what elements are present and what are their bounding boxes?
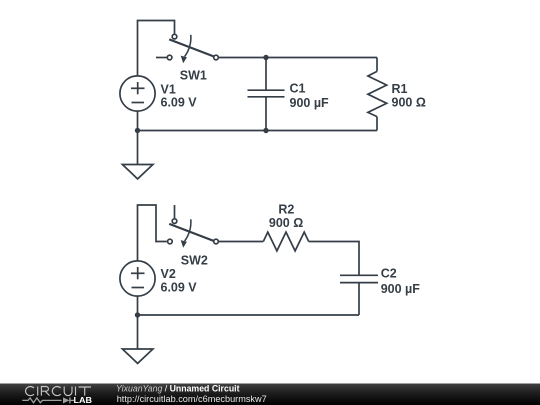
- wire V1 bottom: [137, 112, 139, 131]
- svg-text:900 Ω: 900 Ω: [269, 216, 303, 230]
- resistor R2: [263, 232, 308, 251]
- ground symbol 2: [122, 349, 152, 363]
- voltage source V1: [120, 76, 155, 111]
- wire bottom rail of top circuit: [138, 130, 378, 132]
- svg-text:R2: R2: [278, 202, 294, 216]
- svg-text:http://circuitlab.com/c6mecbur: http://circuitlab.com/c6mecburmskw7: [117, 394, 267, 404]
- node junction bottom of C1: [263, 128, 268, 133]
- svg-text:C1: C1: [290, 82, 306, 96]
- switch SW1: [156, 34, 218, 63]
- svg-text:YixuanYang / Unnamed Circuit: YixuanYang / Unnamed Circuit: [116, 384, 240, 394]
- wire V2 top to SW2 left throw: [138, 205, 167, 261]
- logo resistor squiggle: [22, 398, 61, 403]
- ground symbol 1: [122, 165, 152, 179]
- node junction top of C1: [263, 55, 268, 60]
- capacitor C1: [248, 58, 285, 131]
- svg-text:900 µF: 900 µF: [290, 96, 330, 110]
- node junction at V1 bottom: [135, 128, 140, 133]
- CircuitLab logo wordmark: [26, 387, 91, 396]
- resistor R1: [368, 58, 387, 131]
- wire bottom rail of bottom circuit: [138, 314, 360, 316]
- svg-text:C2: C2: [381, 266, 397, 280]
- svg-text:R1: R1: [392, 82, 408, 96]
- wire R2 to C2 top: [309, 242, 359, 276]
- wire to ground 2: [137, 315, 139, 349]
- svg-text:V2: V2: [161, 267, 176, 281]
- svg-text:900 µF: 900 µF: [381, 282, 421, 296]
- svg-text:SW2: SW2: [181, 253, 208, 267]
- wire to ground 1: [137, 131, 139, 165]
- node junction at V2 bottom: [135, 312, 140, 317]
- svg-text:6.09 V: 6.09 V: [161, 96, 198, 110]
- svg-text:V1: V1: [161, 82, 176, 96]
- switch SW2: [168, 205, 219, 248]
- svg-text:6.09 V: 6.09 V: [161, 280, 198, 294]
- svg-text:SW1: SW1: [180, 69, 207, 83]
- footer bar: [0, 384, 540, 405]
- wire V1 top to SW1 throw stub: [138, 21, 175, 76]
- capacitor C2: [340, 275, 378, 315]
- wire SW2 common to R2: [219, 241, 264, 243]
- voltage source V2: [120, 261, 155, 296]
- logo diode symbol: [63, 397, 70, 403]
- wire SW1 common to R1 top: [219, 57, 377, 59]
- wire V2 bottom: [137, 297, 139, 316]
- svg-text:LAB: LAB: [74, 395, 93, 405]
- svg-text:900 Ω: 900 Ω: [392, 96, 426, 110]
